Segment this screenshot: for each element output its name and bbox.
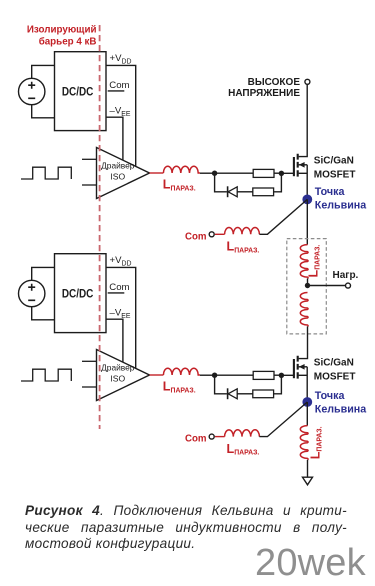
svg-text:Com: Com [185, 434, 207, 445]
wire V2 top to DC/DC2 [32, 267, 55, 280]
wire diode to R4 [237, 393, 253, 395]
ground symbol [303, 477, 313, 485]
driver input stub bottom (top driver) [82, 184, 97, 186]
wire V2 bottom to DC/DC2 [32, 307, 55, 320]
svg-text:барьер 4 кВ: барьер 4 кВ [39, 36, 97, 47]
wire node C to R3 [215, 374, 254, 376]
svg-text:MOSFET: MOSFET [314, 372, 356, 383]
wire node B to gate of Q1 [281, 172, 293, 174]
driver input stub bottom (bottom driver) [82, 386, 97, 388]
pin -VEE (top) wire [106, 117, 123, 160]
svg-text:ISO: ISO [110, 374, 125, 384]
high-voltage net label [228, 77, 300, 99]
voltage source V2 [19, 280, 45, 306]
parasitic inductor L7 (vertical, source) [300, 426, 308, 460]
PWM input waveform (bottom) [21, 369, 71, 381]
voltage source V1 [19, 78, 45, 104]
driver input stub top (bottom driver) [82, 360, 97, 362]
node B junction dot [279, 171, 284, 176]
svg-text:Точка: Точка [315, 186, 346, 198]
driver input stub top (top driver) [82, 158, 97, 160]
wire node A to R1 [215, 172, 254, 174]
wire node C down to diode branch [215, 375, 227, 394]
wire Com terminal to L2 (red) [215, 233, 225, 235]
DC/DC converter (bottom) [55, 254, 107, 333]
wire R4 up to node D [274, 375, 282, 394]
gate resistor R3 (bottom) [253, 371, 274, 379]
load terminal [346, 283, 351, 288]
gate driver ISO (bottom) [97, 350, 150, 401]
isolation barrier label "Изолирующий барьер 4 кВ" [27, 24, 97, 47]
SiC/GaN MOSFET Q1 [294, 154, 307, 200]
PWM input waveform (top) [21, 167, 71, 179]
wire diode to R2 [237, 191, 253, 193]
wire L2 to Kelvin point (diagonal) [259, 199, 307, 234]
wire driver tip to L5 (red) [150, 374, 164, 376]
pin Com (top) wire [108, 90, 125, 92]
svg-text:DC/DC: DC/DC [62, 86, 94, 99]
wire V1 top to DC/DC1 [32, 65, 55, 78]
figure caption [25, 503, 347, 553]
Com terminal (top) [209, 232, 214, 237]
pin -VEE (bottom) wire [106, 319, 123, 362]
svg-text:+VDD: +VDD [110, 255, 132, 267]
gate resistor R2 (top) [253, 188, 274, 196]
isolation barrier dashed line [99, 25, 101, 429]
Com terminal (bottom) [209, 434, 214, 439]
parasitic inductor L4 (vertical, lower) [300, 293, 308, 327]
svg-text:DC/DC: DC/DC [62, 288, 94, 301]
svg-text:Нагр.: Нагр. [333, 270, 359, 281]
svg-text:SiC/GaN: SiC/GaN [314, 155, 354, 166]
svg-text:Com: Com [109, 80, 129, 91]
parasitic inductance boundary box (dashed) [287, 239, 327, 334]
svg-text:LПАРАЗ.: LПАРАЗ. [163, 380, 196, 395]
svg-text:Кельвина: Кельвина [315, 200, 367, 212]
Kelvin point label (bottom) [315, 390, 367, 416]
Kelvin point node (bottom) [302, 397, 312, 407]
gate resistor R1 (top) [253, 169, 274, 177]
svg-text:SiC/GaN: SiC/GaN [314, 357, 354, 368]
gate driver ISO (top) [97, 148, 150, 199]
node C junction dot [212, 373, 217, 378]
Q2 label SiC/GaN MOSFET [314, 357, 356, 382]
parasitic inductor L1 (gate, top) [163, 166, 200, 173]
diode D2 (bottom, cathode left) [228, 388, 238, 399]
Kelvin point label (top) [315, 186, 367, 212]
wire R1 to node B [274, 172, 281, 174]
wire R3 to node D [274, 374, 281, 376]
wire L1 to node A [200, 172, 215, 174]
wire L7 to ground [307, 460, 309, 477]
svg-text:LПАРАЗ.: LПАРАЗ. [163, 178, 196, 193]
wire L6 to Kelvin point (diagonal) [259, 402, 307, 437]
high-voltage terminal [305, 79, 310, 84]
switch node junction dot [305, 283, 310, 288]
watermark 20wek [255, 542, 366, 585]
svg-text:LПАРАЗ.: LПАРАЗ. [227, 442, 260, 457]
wire Kelvin point down to L3 [306, 199, 308, 244]
parasitic inductor L6 (Com, bottom) [225, 430, 260, 437]
svg-text:Драйвер: Драйвер [101, 363, 135, 373]
wire node A down to diode branch [215, 173, 227, 192]
svg-text:Com: Com [185, 232, 207, 243]
wire switch node to load terminal [308, 285, 346, 287]
Q1 label SiC/GaN MOSFET [314, 155, 356, 180]
svg-text:Com: Com [109, 282, 129, 293]
svg-text:Драйвер: Драйвер [101, 161, 135, 171]
svg-text:ВЫСОКОЕ: ВЫСОКОЕ [248, 77, 301, 88]
wire L5 to node C [200, 374, 215, 376]
svg-text:+VDD: +VDD [110, 53, 132, 65]
SiC/GaN MOSFET Q2 [294, 356, 307, 402]
wire HV terminal to Q1 drain [299, 85, 308, 157]
wire node D to gate of Q2 [281, 374, 293, 376]
wire L3 to switch node [307, 279, 309, 286]
DC/DC converter (top) [55, 52, 107, 131]
svg-text:LПАРАЗ.: LПАРАЗ. [309, 426, 324, 459]
svg-text:Точка: Точка [315, 390, 346, 402]
svg-text:Изолирующий: Изолирующий [27, 24, 97, 35]
svg-text:НАПРЯЖЕНИЕ: НАПРЯЖЕНИЕ [228, 88, 300, 99]
parasitic inductor L5 (gate, bottom) [163, 368, 200, 375]
diode D1 (top, cathode left) [228, 186, 238, 197]
parasitic inductor L3 (vertical, upper) [300, 245, 308, 279]
wire Com terminal to L6 (red) [215, 436, 225, 438]
svg-text:–VEE: –VEE [110, 106, 131, 118]
pin Com (bottom) wire [108, 292, 125, 294]
wire driver tip to L1 (red) [150, 172, 164, 174]
wire L4 down to Q2 drain [299, 326, 308, 358]
wire R2 up to node B [274, 173, 282, 192]
svg-text:MOSFET: MOSFET [314, 170, 356, 181]
node D junction dot [279, 373, 284, 378]
pin +VDD (top) wire [106, 65, 136, 166]
svg-text:–VEE: –VEE [110, 308, 131, 320]
svg-text:Кельвина: Кельвина [315, 404, 367, 416]
node A junction dot [212, 171, 217, 176]
svg-text:LПАРАЗ.: LПАРАЗ. [227, 240, 260, 255]
wire Kelvin point down to L7 [306, 402, 308, 426]
wire V1 bottom to DC/DC1 [32, 105, 55, 118]
gate resistor R4 (bottom) [253, 390, 274, 398]
parasitic inductor L2 (Com, top) [225, 227, 260, 234]
svg-text:LПАРАЗ.: LПАРАЗ. [307, 245, 322, 278]
svg-text:ISO: ISO [110, 172, 125, 182]
Kelvin point node (top) [302, 195, 312, 205]
pin +VDD (bottom) wire [106, 267, 136, 368]
